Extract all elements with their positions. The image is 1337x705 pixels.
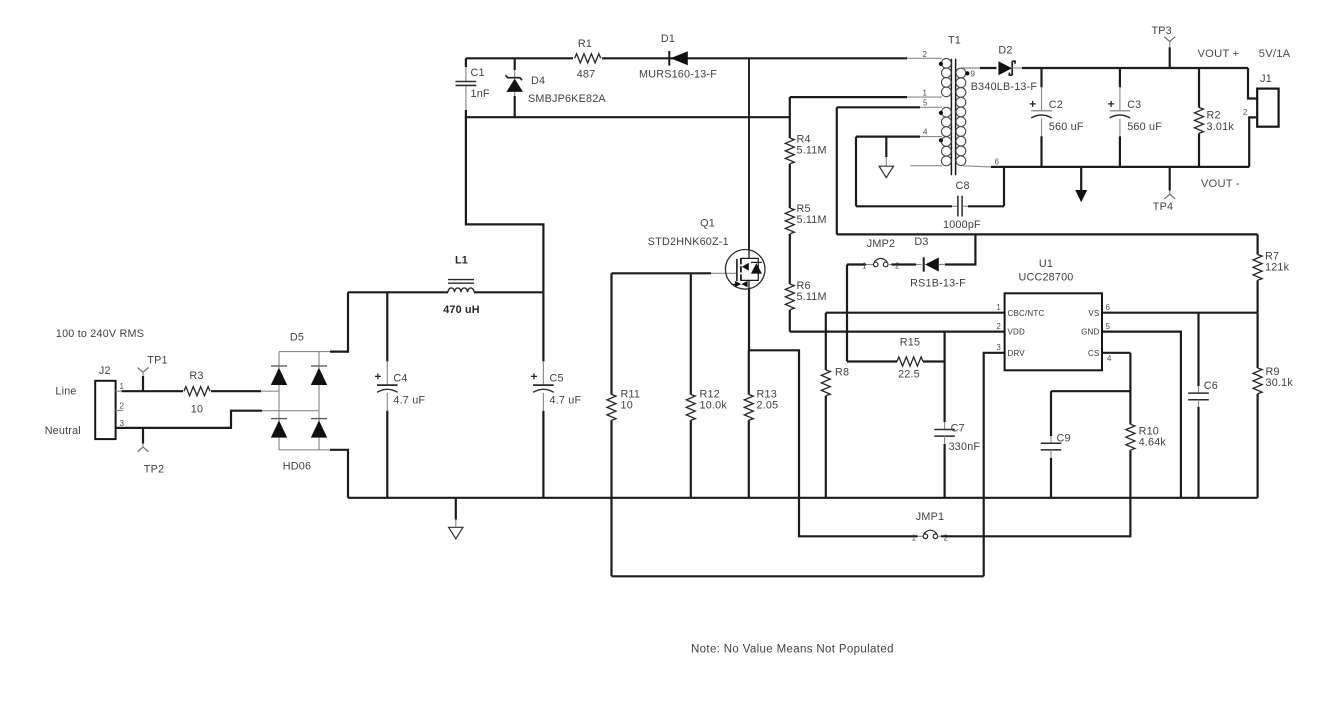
capacitor C2	[1030, 68, 1084, 167]
capacitor C4	[375, 292, 426, 498]
capacitor C9	[1041, 391, 1071, 498]
T1 aux lower winding open	[911, 137, 952, 166]
capacitor C8 1000pF	[943, 180, 981, 231]
svg-text:T1: T1	[948, 35, 961, 47]
wire JMP2 node	[847, 265, 866, 362]
svg-text:J2: J2	[99, 365, 111, 377]
wire JMP1 to R10	[941, 450, 1130, 536]
resistor R6	[785, 280, 826, 310]
resistor R12	[686, 273, 727, 498]
svg-text:CS: CS	[1088, 349, 1100, 358]
wire C8 right leg	[968, 167, 1004, 206]
svg-text:R3: R3	[189, 370, 203, 382]
resistor R4	[785, 134, 826, 164]
capacitor C3	[1108, 68, 1162, 167]
resistor R15	[847, 337, 945, 381]
svg-text:Q1: Q1	[700, 218, 715, 230]
svg-text:D4: D4	[531, 75, 545, 87]
svg-text:J1: J1	[1260, 73, 1272, 85]
svg-text:100 to 240V RMS: 100 to 240V RMS	[56, 328, 144, 340]
resistor R10	[1126, 353, 1167, 450]
svg-text:487: 487	[577, 69, 596, 81]
svg-text:30.1k: 30.1k	[1266, 377, 1294, 389]
resistor R5	[785, 203, 826, 234]
svg-text:3: 3	[996, 343, 1001, 352]
wire clamp top node	[466, 57, 907, 59]
svg-text:22.5: 22.5	[898, 369, 920, 381]
svg-text:4.7 uF: 4.7 uF	[393, 395, 425, 407]
divider chain wires	[789, 97, 791, 332]
svg-text:2: 2	[1243, 108, 1248, 117]
resistor R8	[821, 313, 849, 498]
T1 primary winding pin2-pin1	[907, 50, 951, 98]
svg-text:C2: C2	[1049, 99, 1063, 111]
svg-text:1000pF: 1000pF	[943, 219, 981, 231]
test point TP4	[1153, 167, 1175, 213]
svg-text:UCC28700: UCC28700	[1018, 272, 1073, 284]
wire bridge top elbow	[330, 292, 348, 351]
svg-text:2: 2	[996, 322, 1001, 331]
capacitor C7	[934, 362, 980, 498]
transformer T1	[948, 35, 961, 176]
svg-text:B340LB-13-F: B340LB-13-F	[971, 81, 1038, 93]
svg-text:5.11M: 5.11M	[797, 145, 827, 157]
test point TP1	[138, 355, 168, 392]
svg-text:C4: C4	[393, 372, 407, 384]
svg-text:R1: R1	[578, 38, 592, 50]
svg-text:Line: Line	[55, 386, 76, 398]
svg-text:D1: D1	[661, 33, 675, 45]
diode D2 B340LB-13-F	[971, 45, 1038, 94]
svg-text:C5: C5	[550, 372, 564, 384]
svg-text:C7: C7	[951, 423, 965, 435]
svg-text:SMBJP6KE82A: SMBJP6KE82A	[528, 93, 606, 105]
svg-text:TP4: TP4	[1153, 201, 1173, 213]
resistor R1	[575, 38, 601, 81]
svg-text:5: 5	[1106, 322, 1111, 331]
svg-text:4: 4	[923, 128, 928, 137]
resistor R11	[607, 273, 640, 576]
wire drain	[748, 58, 750, 250]
capacitor C6	[1188, 313, 1218, 498]
wire D3 to aux	[945, 234, 975, 264]
svg-text:2: 2	[923, 50, 928, 59]
svg-text:STD2HNK60Z-1: STD2HNK60Z-1	[648, 236, 729, 248]
inductor L1 470uH	[443, 255, 480, 317]
svg-text:D3: D3	[914, 236, 928, 248]
capacitor C1	[456, 58, 490, 110]
svg-text:R15: R15	[900, 337, 920, 349]
resistor R7	[1253, 234, 1290, 312]
wire bridge bottom elbow	[330, 450, 348, 498]
wire GND pin	[1102, 332, 1181, 498]
svg-text:VS: VS	[1088, 309, 1099, 318]
svg-text:2: 2	[120, 402, 125, 411]
svg-text:4.7 uF: 4.7 uF	[550, 395, 582, 407]
svg-text:C1: C1	[471, 67, 485, 79]
test point TP2	[138, 428, 165, 476]
bridge rectifier D5 HD06	[261, 332, 330, 473]
svg-text:2: 2	[944, 534, 949, 543]
wire gate line	[612, 272, 712, 274]
svg-text:C9: C9	[1057, 433, 1071, 445]
svg-text:L1: L1	[455, 255, 468, 267]
TVS diode D4 SMBJP6KE82A	[506, 58, 607, 117]
ground output arrow	[1075, 167, 1087, 202]
wire neutral input	[116, 411, 262, 428]
diode D1 MURS160-13-F	[639, 33, 717, 81]
svg-text:Neutral: Neutral	[45, 425, 81, 437]
wire gate drive return	[612, 575, 984, 577]
wire CS pin	[1102, 352, 1130, 354]
svg-text:6: 6	[995, 158, 1000, 167]
svg-text:D5: D5	[290, 332, 304, 344]
wire clamp bottom / bulk node	[465, 116, 790, 118]
svg-text:1: 1	[912, 534, 917, 543]
T1 aux winding pin5-pin4	[920, 99, 951, 137]
svg-text:560 uF: 560 uF	[1127, 121, 1162, 133]
svg-text:R2: R2	[1207, 110, 1221, 122]
svg-text:D2: D2	[998, 45, 1012, 57]
connector J2	[95, 365, 124, 439]
wire aux pin5	[837, 106, 920, 108]
wire bottom rail	[348, 497, 1258, 499]
svg-text:VOUT -: VOUT -	[1201, 178, 1240, 190]
svg-text:1: 1	[862, 262, 867, 271]
transistor Q1 STD2HNK60Z-1	[648, 218, 765, 290]
wire VS line	[1102, 312, 1258, 314]
svg-text:C8: C8	[956, 180, 970, 192]
svg-text:3.01k: 3.01k	[1207, 121, 1235, 133]
wire gate lead gray	[711, 272, 737, 274]
wire aux line	[837, 107, 1258, 234]
wire source node	[749, 289, 918, 537]
svg-text:121k: 121k	[1265, 262, 1290, 274]
wire bulk rail	[348, 291, 543, 293]
svg-text:330nF: 330nF	[949, 441, 981, 453]
wire DRV pin	[984, 353, 1005, 577]
svg-text:VOUT +: VOUT +	[1198, 48, 1240, 60]
ground primary	[449, 498, 463, 539]
test point TP3	[1151, 25, 1175, 68]
svg-text:1nF: 1nF	[471, 88, 490, 100]
svg-text:TP3: TP3	[1151, 25, 1171, 37]
wire VDD line	[790, 331, 1005, 333]
wire CBC line	[826, 312, 1005, 314]
svg-text:U1: U1	[1039, 258, 1053, 270]
svg-text:DRV: DRV	[1008, 349, 1026, 358]
diode D3 RS1B-13-F	[910, 236, 966, 290]
wire aux pin4	[856, 136, 920, 138]
svg-text:TP2: TP2	[144, 464, 164, 476]
wire line input	[122, 390, 261, 392]
svg-text:5.11M: 5.11M	[797, 214, 827, 226]
svg-text:RS1B-13-F: RS1B-13-F	[910, 278, 966, 290]
wire secondary top	[980, 67, 997, 69]
svg-text:C6: C6	[1204, 380, 1218, 392]
svg-text:1: 1	[996, 303, 1001, 312]
jumper JMP2	[862, 238, 900, 271]
svg-text:10: 10	[191, 404, 203, 416]
wire primary pin1	[790, 96, 907, 98]
svg-text:6: 6	[1106, 303, 1111, 312]
ground aux analog	[879, 137, 893, 178]
svg-text:TP1: TP1	[147, 355, 167, 367]
svg-text:10: 10	[621, 400, 633, 412]
op-amp U1 UCC28700	[996, 258, 1112, 370]
resistor R9	[1253, 313, 1293, 498]
svg-text:CBC/NTC: CBC/NTC	[1008, 309, 1045, 318]
svg-text:2: 2	[895, 262, 900, 271]
T1 secondary winding pin9-pin6	[956, 68, 999, 167]
svg-text:Note: No Value Means Not Popul: Note: No Value Means Not Populated	[691, 644, 894, 656]
svg-text:1: 1	[120, 382, 125, 391]
svg-text:C3: C3	[1127, 99, 1141, 111]
svg-text:MURS160-13-F: MURS160-13-F	[639, 69, 717, 81]
connector J1	[1243, 68, 1279, 167]
svg-text:1: 1	[923, 89, 928, 98]
svg-text:3: 3	[120, 419, 125, 428]
svg-text:JMP2: JMP2	[867, 238, 895, 250]
wire output top rail	[1022, 67, 1248, 69]
wire VDD cap branch	[943, 332, 945, 362]
wire JMP2 to D3	[892, 263, 917, 265]
wire bulk feed step	[466, 110, 544, 292]
wire CS filter	[1051, 390, 1130, 392]
resistor R13	[744, 350, 778, 498]
svg-text:5V/1A: 5V/1A	[1259, 48, 1291, 60]
svg-text:5: 5	[923, 99, 928, 108]
svg-text:VDD: VDD	[1008, 328, 1026, 337]
svg-text:GND: GND	[1081, 328, 1099, 337]
svg-text:JMP1: JMP1	[916, 511, 944, 523]
svg-text:4.64k: 4.64k	[1139, 437, 1167, 449]
svg-text:4: 4	[1107, 354, 1112, 363]
wire output bottom rail	[991, 166, 1249, 168]
svg-text:5.11M: 5.11M	[797, 291, 827, 303]
svg-text:2.05: 2.05	[757, 400, 779, 412]
svg-text:470 uH: 470 uH	[443, 304, 480, 316]
resistor R3	[184, 370, 210, 416]
capacitor C5	[531, 292, 582, 498]
svg-text:560 uF: 560 uF	[1049, 121, 1084, 133]
wire C8 left leg	[856, 137, 952, 207]
svg-text:10.0k: 10.0k	[700, 400, 728, 412]
svg-text:HD06: HD06	[283, 461, 311, 473]
svg-text:R8: R8	[835, 367, 849, 379]
svg-text:9: 9	[971, 70, 976, 79]
resistor R2	[1195, 68, 1235, 167]
jumper JMP1	[912, 511, 949, 543]
